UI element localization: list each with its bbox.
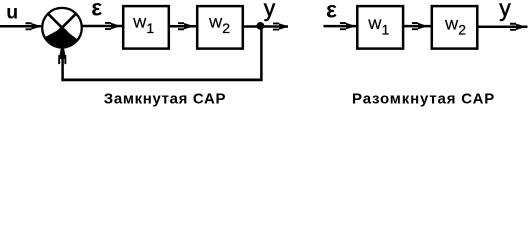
arrowhead output (left): [273, 23, 286, 31]
arrowhead into W2 (left): [178, 22, 191, 30]
wire u input line: [0, 25, 41, 28]
svg-text:ε: ε: [91, 0, 102, 21]
wire feedback down from junction: [260, 27, 263, 81]
wire summing junction to W1: [81, 25, 123, 28]
svg-text:y: y: [499, 0, 511, 21]
wire epsilon input (right): [324, 25, 357, 28]
wire W2 to output y (left): [243, 25, 288, 28]
wire output y (right): [478, 26, 528, 29]
wire feedback bottom horizontal: [61, 79, 262, 82]
wire W1 to W2 (right): [403, 25, 432, 28]
svg-text:Замкнутая САР: Замкнутая САР: [104, 90, 226, 107]
block W2 (right): [432, 6, 478, 49]
wire feedback up into summing junction: [61, 49, 64, 81]
summing junction filled bottom sector: [45, 28, 78, 48]
wire W1 to W2 (left): [169, 25, 197, 28]
arrowhead output (right): [510, 23, 523, 31]
block W1 (right): [357, 6, 403, 49]
arrowhead up into summing junction: [58, 48, 66, 64]
arrowhead into W1 (left): [105, 22, 118, 30]
svg-text:y: y: [264, 0, 276, 21]
arrowhead into W2 (right): [412, 22, 425, 30]
svg-text:ε: ε: [326, 0, 337, 22]
summing junction (comparator circle): [42, 8, 82, 48]
block W2 (left): [197, 6, 243, 49]
svg-text:u: u: [6, 2, 18, 24]
summing junction diagonal 1: [48, 14, 76, 42]
svg-text:Разомкнутая САР: Разомкнутая САР: [352, 90, 495, 107]
block W1 (left): [123, 6, 169, 49]
arrowhead into summing junction: [26, 22, 39, 30]
summing junction diagonal 2: [48, 14, 76, 42]
arrowhead into W1 (right): [340, 22, 353, 30]
junction dot at y: [257, 22, 265, 30]
